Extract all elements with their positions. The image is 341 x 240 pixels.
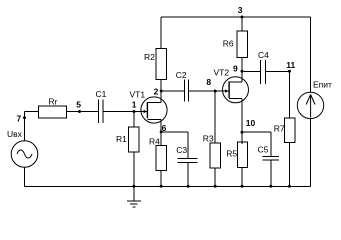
svg-text:R4: R4 — [149, 136, 160, 146]
svg-text:VT1: VT1 — [130, 90, 146, 100]
svg-text:2: 2 — [154, 87, 159, 97]
svg-text:7: 7 — [17, 114, 22, 124]
svg-text:Rr: Rr — [49, 96, 58, 106]
svg-text:11: 11 — [286, 60, 295, 70]
svg-text:R2: R2 — [144, 52, 155, 62]
svg-text:3: 3 — [238, 5, 243, 15]
svg-text:C3: C3 — [176, 145, 187, 155]
svg-text:R6: R6 — [223, 39, 234, 49]
svg-text:9: 9 — [233, 63, 238, 73]
svg-text:C4: C4 — [258, 50, 269, 60]
svg-text:VT2: VT2 — [214, 68, 230, 78]
svg-text:C5: C5 — [258, 144, 269, 154]
svg-text:R1: R1 — [116, 134, 127, 144]
svg-text:C2: C2 — [176, 70, 187, 80]
svg-text:Eпит: Eпит — [313, 80, 332, 90]
svg-text:6: 6 — [162, 123, 167, 133]
svg-text:R5: R5 — [226, 148, 237, 158]
svg-text:R3: R3 — [203, 134, 214, 144]
svg-text:10: 10 — [246, 118, 256, 128]
svg-text:Uвх: Uвх — [7, 129, 23, 139]
svg-text:R7: R7 — [274, 124, 285, 134]
svg-text:C1: C1 — [96, 89, 107, 99]
svg-text:8: 8 — [206, 77, 211, 87]
svg-text:1: 1 — [132, 99, 137, 109]
svg-text:5: 5 — [76, 99, 81, 109]
